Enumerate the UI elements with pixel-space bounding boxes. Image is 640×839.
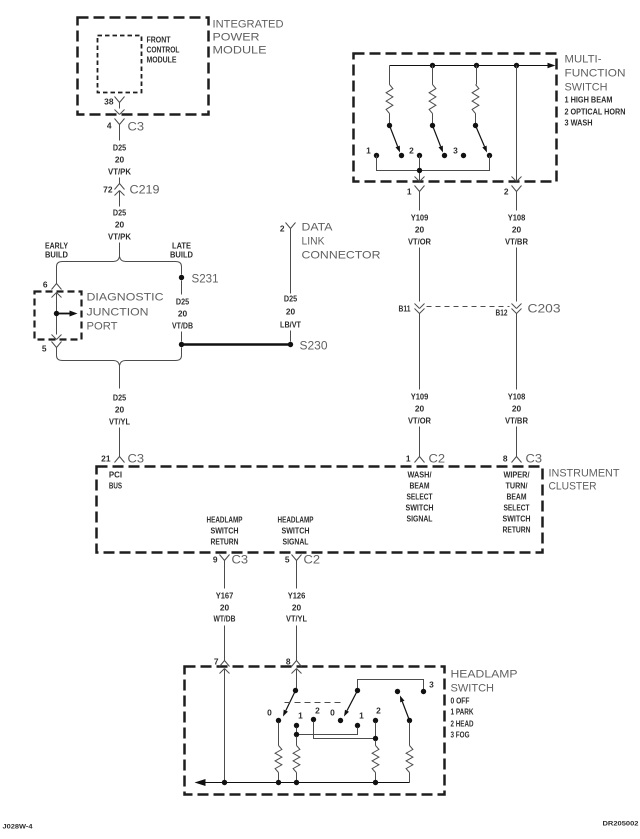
wire label D25 20 VT/PK	[108, 143, 131, 177]
node S231	[179, 267, 219, 295]
front control module label	[147, 35, 180, 65]
svg-text:C2: C2	[429, 452, 446, 466]
svg-text:MODULE: MODULE	[147, 55, 177, 65]
svg-text:C3: C3	[232, 553, 249, 567]
tie line contacts 1	[297, 728, 358, 735]
headlamp switch legend	[451, 696, 474, 740]
splice S230 bus	[179, 339, 328, 353]
node on feed line	[514, 63, 519, 68]
svg-text:VT/PK: VT/PK	[108, 232, 131, 242]
svg-text:5: 5	[42, 344, 47, 354]
junction	[294, 780, 299, 785]
wire	[119, 366, 121, 389]
wire label Y126 20 VT/YL	[286, 591, 307, 624]
node on feed line	[430, 63, 435, 68]
svg-text:1: 1	[359, 711, 364, 721]
svg-text:C3: C3	[128, 120, 145, 134]
switch arm 1	[387, 123, 400, 153]
wire	[224, 626, 226, 656]
data link connector label	[302, 222, 381, 262]
resistor 3	[472, 66, 479, 124]
pin 5 exit from DJP	[42, 335, 62, 356]
junction	[373, 780, 378, 785]
contact 3	[421, 680, 434, 695]
svg-text:C3: C3	[128, 452, 145, 466]
junction	[222, 780, 227, 785]
wire	[516, 314, 518, 390]
wire pin7 to ground bus	[224, 669, 226, 783]
wire	[119, 243, 121, 258]
svg-text:Y109: Y109	[411, 213, 429, 223]
contact 0 (right)	[330, 708, 343, 724]
svg-text:C3: C3	[526, 452, 543, 466]
contact 0 (left)	[267, 708, 281, 724]
svg-text:2: 2	[315, 706, 320, 716]
junction	[276, 780, 281, 785]
svg-text:C2: C2	[304, 553, 321, 567]
connector C3 pin 4 at IPM edge	[107, 110, 145, 141]
headlamp switch return label	[207, 515, 243, 547]
svg-text:INSTRUMENT: INSTRUMENT	[549, 468, 620, 480]
svg-text:20: 20	[415, 404, 425, 414]
svg-text:LINK: LINK	[302, 236, 325, 248]
tie line contacts 2	[314, 722, 376, 739]
svg-text:SIGNAL: SIGNAL	[407, 514, 433, 524]
wire	[290, 331, 292, 342]
svg-text:BUILD: BUILD	[170, 250, 193, 260]
svg-text:20: 20	[415, 225, 425, 235]
resistor R4	[406, 723, 413, 783]
svg-text:B12: B12	[496, 308, 508, 318]
svg-text:MODULE: MODULE	[213, 45, 268, 57]
integrated power module label	[213, 19, 284, 57]
diagnostic junction port box	[35, 292, 82, 340]
svg-text:1: 1	[406, 454, 411, 464]
svg-text:3: 3	[453, 146, 458, 156]
svg-text:B11: B11	[399, 304, 411, 314]
integrated power module box	[78, 18, 209, 115]
svg-text:SWITCH: SWITCH	[282, 526, 310, 536]
svg-text:0: 0	[267, 708, 272, 718]
wire label D25 20 LB/VT	[280, 294, 302, 330]
svg-text:21: 21	[101, 454, 111, 464]
svg-text:BUILD: BUILD	[45, 250, 68, 260]
common bus line	[377, 156, 490, 171]
svg-text:20: 20	[286, 307, 296, 317]
svg-text:8: 8	[286, 657, 291, 667]
svg-text:D25: D25	[176, 297, 189, 307]
svg-text:PORT: PORT	[87, 321, 118, 333]
switch arm (park/head selector)	[283, 688, 298, 717]
svg-text:CONTROL: CONTROL	[147, 45, 180, 55]
svg-text:D25: D25	[113, 393, 126, 403]
wire early build branch	[56, 267, 58, 284]
svg-text:2 HEAD: 2 HEAD	[451, 719, 474, 729]
svg-text:20: 20	[512, 225, 522, 235]
fog switch contact	[395, 689, 400, 694]
pin 1 C2 entry into instrument cluster	[406, 449, 446, 466]
pin 8 C3 entry into instrument cluster	[503, 449, 543, 466]
pin 21 C3 entry into instrument cluster	[101, 449, 144, 466]
wire pin8 to switch arm	[296, 669, 298, 691]
wire	[296, 567, 298, 589]
wire label D25 20 VT/PK	[108, 208, 131, 242]
wire	[516, 199, 518, 211]
svg-text:SWITCH: SWITCH	[451, 683, 495, 695]
resistor R3	[372, 741, 379, 783]
svg-text:1 PARK: 1 PARK	[451, 707, 474, 717]
svg-text:VT/DB: VT/DB	[172, 321, 193, 331]
wire label Y108 20 VT/BR	[505, 213, 528, 247]
svg-text:SELECT: SELECT	[504, 503, 531, 513]
contact 1	[366, 146, 379, 159]
svg-text:Y126: Y126	[288, 591, 306, 601]
instrument cluster label	[549, 468, 620, 493]
switch arm 3	[473, 123, 487, 153]
svg-text:TURN/: TURN/	[506, 481, 529, 491]
multi-function switch box	[354, 54, 557, 182]
svg-text:7: 7	[214, 657, 219, 667]
svg-text:J028W-4: J028W-4	[3, 824, 33, 831]
resistor 2	[429, 66, 436, 124]
svg-text:WT/DB: WT/DB	[214, 614, 236, 624]
wire	[419, 248, 421, 302]
pin 1 exit from MFS	[407, 177, 425, 199]
svg-text:VT/PK: VT/PK	[108, 167, 131, 177]
svg-text:SIGNAL: SIGNAL	[283, 537, 309, 547]
contact 1 (left)	[294, 711, 303, 729]
pin 5 C2 exit from instrument cluster	[285, 553, 321, 567]
switch arm 2	[430, 123, 443, 153]
svg-text:VT/YL: VT/YL	[109, 417, 130, 427]
svg-text:SWITCH: SWITCH	[565, 82, 608, 94]
headlamp switch signal label	[278, 515, 314, 547]
instrument cluster box	[97, 467, 543, 553]
svg-text:BUS: BUS	[109, 481, 123, 491]
svg-text:S231: S231	[192, 272, 219, 286]
svg-text:INTEGRATED: INTEGRATED	[213, 19, 284, 31]
switch arm (right, off/park)	[344, 688, 360, 717]
junction	[417, 156, 422, 182]
svg-text:72: 72	[103, 185, 113, 195]
svg-text:20: 20	[178, 309, 188, 319]
wire	[419, 427, 421, 451]
svg-text:3 WASH: 3 WASH	[565, 118, 593, 128]
svg-text:RETURN: RETURN	[503, 525, 531, 535]
svg-text:5: 5	[285, 555, 290, 565]
junction	[373, 736, 378, 741]
svg-text:VT/OR: VT/OR	[408, 416, 431, 426]
svg-text:20: 20	[512, 404, 522, 414]
svg-text:Y167: Y167	[216, 591, 234, 601]
wire label D25 20 VT/DB	[172, 297, 193, 331]
svg-text:1: 1	[407, 187, 412, 197]
contact 2 (left)	[311, 706, 320, 723]
svg-text:VT/BR: VT/BR	[505, 416, 528, 426]
svg-text:8: 8	[503, 454, 508, 464]
svg-text:0 OFF: 0 OFF	[451, 696, 470, 706]
svg-text:CLUSTER: CLUSTER	[549, 481, 597, 493]
svg-text:2: 2	[376, 706, 381, 716]
data link connector pin 2	[280, 223, 296, 234]
pin 6 entry into diagnostic junction port	[43, 280, 62, 298]
svg-text:WIPER/: WIPER/	[504, 470, 531, 480]
svg-text:2: 2	[409, 146, 414, 156]
mechanical link	[285, 702, 345, 704]
svg-text:20: 20	[292, 603, 302, 613]
pin 38 connector at FCM edge	[104, 97, 124, 109]
node on feed line	[474, 63, 479, 68]
svg-text:S230: S230	[300, 339, 328, 353]
svg-text:LB/VT: LB/VT	[280, 320, 302, 330]
connector C203 pin B12	[496, 302, 561, 318]
wire	[516, 427, 518, 451]
svg-text:HEADLAMP: HEADLAMP	[451, 669, 518, 681]
wire to pin 2 exit	[516, 66, 518, 182]
svg-text:VT/BR: VT/BR	[505, 237, 528, 247]
svg-text:HEADLAMP: HEADLAMP	[207, 515, 243, 525]
svg-text:D25: D25	[113, 208, 126, 218]
resistor 1	[386, 66, 393, 124]
svg-text:Y108: Y108	[508, 213, 526, 223]
svg-text:SWITCH: SWITCH	[406, 503, 434, 513]
svg-text:BEAM: BEAM	[507, 492, 527, 502]
diagnostic junction port label	[87, 292, 164, 333]
svg-text:SWITCH: SWITCH	[211, 526, 239, 536]
wire label Y109 20 VT/OR	[408, 392, 431, 426]
svg-text:Y109: Y109	[411, 392, 429, 402]
svg-text:C203: C203	[528, 302, 561, 316]
svg-text:4: 4	[107, 121, 112, 131]
fog switch arm	[400, 696, 412, 724]
feed line to contact 3	[358, 680, 424, 691]
resistor R2	[293, 737, 300, 783]
svg-text:PCI: PCI	[109, 470, 122, 480]
svg-text:0: 0	[330, 708, 335, 718]
svg-text:VT/OR: VT/OR	[408, 237, 431, 247]
svg-text:BEAM: BEAM	[410, 481, 430, 491]
wire label Y108 20 VT/BR	[505, 392, 528, 426]
svg-text:3 FOG: 3 FOG	[451, 730, 470, 740]
svg-text:9: 9	[213, 555, 218, 565]
wire label Y167 20 WT/DB	[214, 591, 236, 624]
junction node with arrow	[54, 311, 78, 317]
pin 2 exit from MFS	[504, 177, 522, 199]
svg-text:DR205002: DR205002	[603, 821, 639, 828]
svg-text:20: 20	[220, 603, 230, 613]
wire	[296, 626, 298, 656]
svg-text:6: 6	[43, 280, 48, 290]
svg-text:2: 2	[280, 224, 285, 234]
svg-text:RETURN: RETURN	[211, 537, 239, 547]
contact (arm 1 throw)	[399, 153, 404, 158]
svg-text:VT/YL: VT/YL	[286, 614, 307, 624]
svg-text:20: 20	[115, 220, 125, 230]
svg-text:Y108: Y108	[508, 392, 526, 402]
svg-text:DATA: DATA	[302, 222, 334, 234]
feed line with arrow	[390, 65, 548, 67]
early build label	[45, 241, 68, 260]
svg-text:POWER: POWER	[213, 32, 260, 44]
svg-text:1 HIGH BEAM: 1 HIGH BEAM	[565, 95, 613, 105]
svg-text:38: 38	[104, 97, 114, 107]
split brace	[57, 257, 182, 267]
contact (arm 3 throw)	[487, 153, 492, 158]
svg-text:MULTI-: MULTI-	[565, 54, 602, 66]
headlamp switch label	[451, 669, 518, 695]
svg-text:2 OPTICAL HORN: 2 OPTICAL HORN	[565, 107, 626, 117]
svg-text:20: 20	[115, 155, 125, 165]
wire	[224, 567, 226, 589]
wire from DLC	[290, 229, 292, 294]
svg-text:20: 20	[115, 405, 125, 415]
wire	[516, 248, 518, 302]
front control module box	[98, 36, 142, 93]
junction	[294, 732, 299, 737]
wiper/turn/beam select switch return label	[503, 470, 531, 535]
contact 2	[409, 146, 422, 159]
wire	[419, 199, 421, 211]
svg-text:CONNECTOR: CONNECTOR	[302, 250, 381, 262]
svg-text:1: 1	[298, 711, 303, 721]
svg-text:SELECT: SELECT	[407, 492, 434, 502]
pin 7 entry into headlamp switch	[214, 653, 230, 674]
pci bus label	[109, 470, 123, 491]
connector C219 pin 72	[103, 178, 160, 207]
ground bus with arrow	[206, 782, 410, 784]
contact 1 (right)	[355, 711, 364, 729]
contact 3	[453, 146, 466, 159]
pin 9 C3 exit from instrument cluster	[213, 553, 249, 567]
wire	[181, 332, 183, 342]
multi-function switch label	[565, 54, 626, 94]
C203 tie line	[427, 306, 510, 308]
svg-text:WASH/: WASH/	[408, 470, 433, 480]
late build label	[170, 241, 193, 260]
svg-text:C219: C219	[130, 183, 160, 197]
headlamp switch box	[185, 667, 445, 795]
connector C203 pin B11	[399, 304, 425, 314]
merge brace	[57, 356, 182, 366]
wire label Y109 20 VT/OR	[408, 213, 431, 247]
svg-text:FRONT: FRONT	[147, 35, 172, 45]
svg-text:3: 3	[429, 680, 434, 690]
resistor R1	[275, 723, 282, 783]
svg-text:FUNCTION: FUNCTION	[565, 68, 626, 80]
svg-text:SWITCH: SWITCH	[503, 514, 531, 524]
contact 2 (right)	[373, 706, 381, 724]
wash/beam select switch signal label	[406, 470, 434, 524]
svg-text:JUNCTION: JUNCTION	[87, 307, 149, 319]
wire	[181, 348, 183, 356]
wire	[419, 314, 421, 390]
pin 8 entry into headlamp switch	[286, 653, 302, 674]
switch legend	[565, 95, 626, 128]
svg-text:D25: D25	[284, 294, 297, 304]
svg-text:D25: D25	[113, 143, 126, 153]
wire inside DJP	[56, 293, 58, 335]
svg-text:2: 2	[504, 187, 509, 197]
wire label D25 20 VT/YL	[109, 393, 130, 427]
wire	[119, 428, 121, 451]
contact (arm 2 throw)	[442, 153, 447, 158]
svg-text:HEADLAMP: HEADLAMP	[278, 515, 314, 525]
svg-text:DIAGNOSTIC: DIAGNOSTIC	[87, 292, 164, 304]
svg-text:1: 1	[366, 146, 371, 156]
